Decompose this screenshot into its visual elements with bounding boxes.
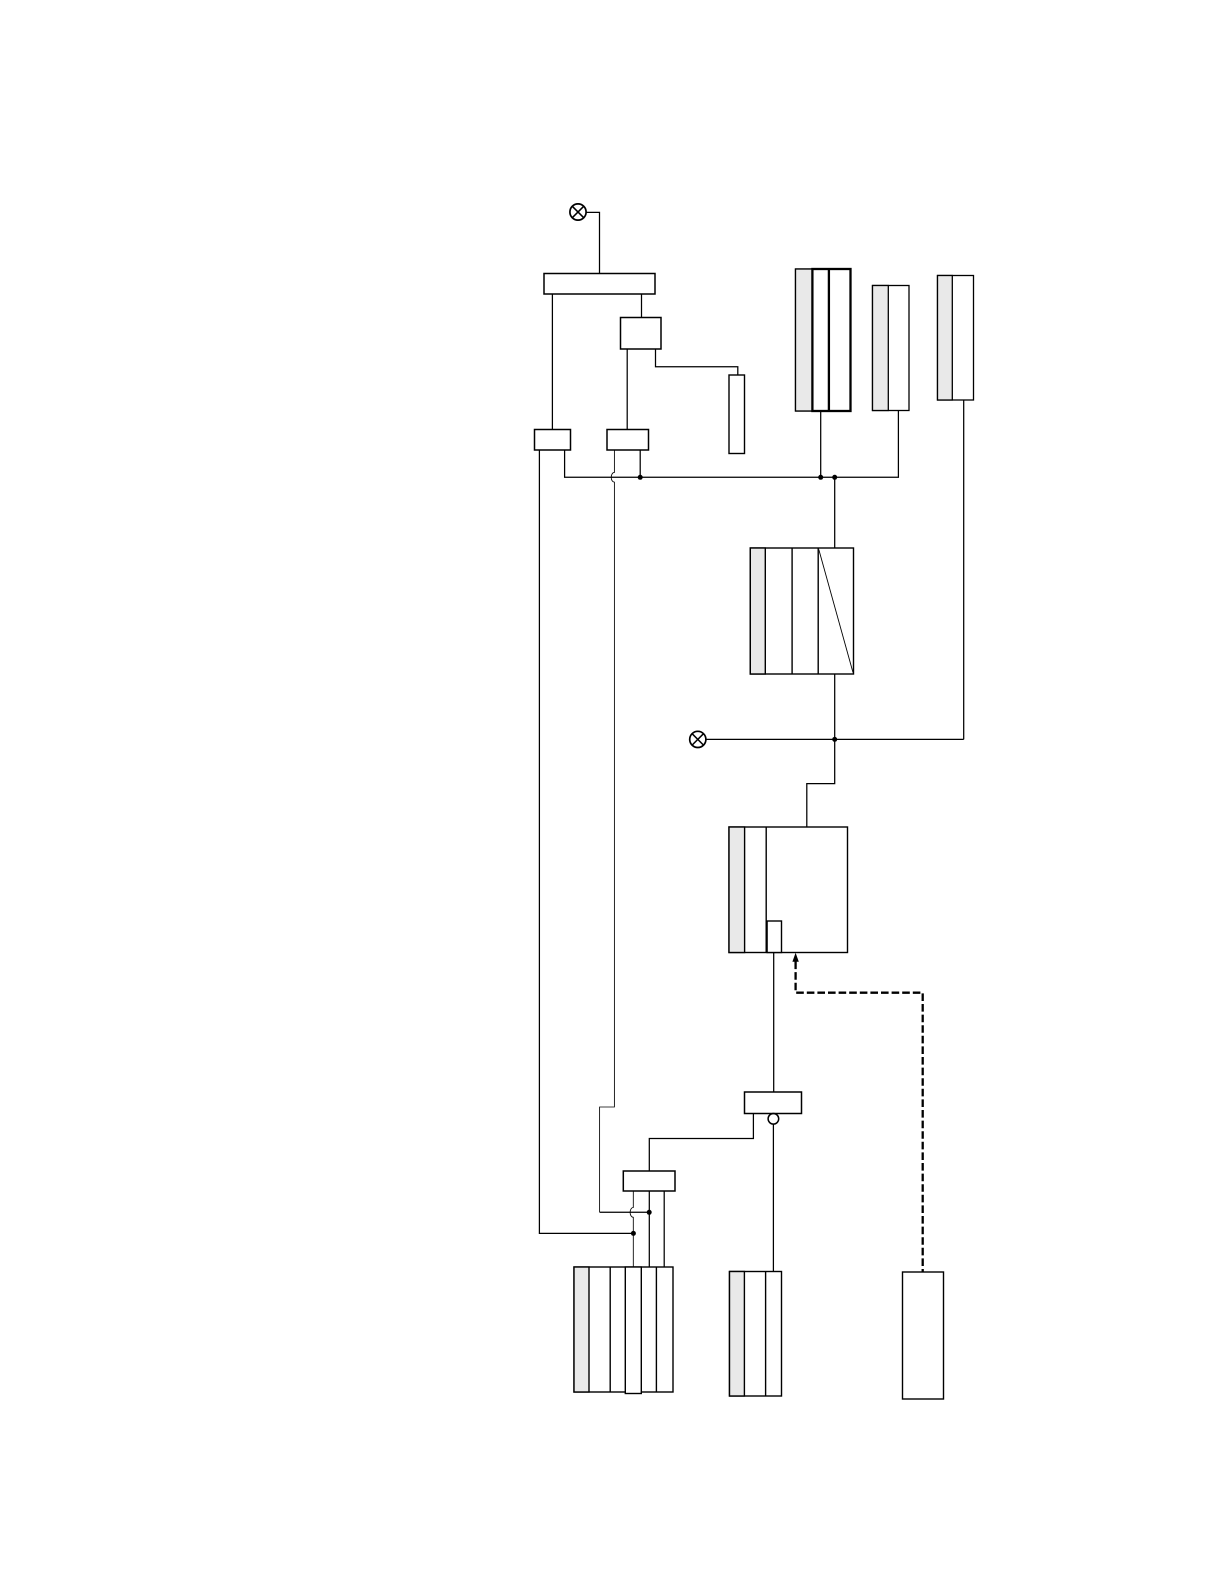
- switch S1 (box with diagonal): [750, 548, 853, 674]
- terminal circle under X5: [768, 1114, 779, 1125]
- connector X3: [535, 430, 571, 451]
- arrowhead: [792, 953, 798, 962]
- connector X6: [623, 1171, 675, 1191]
- wire node to control unit E top: [807, 739, 835, 827]
- wire X5 circle to block F2: [772, 1124, 774, 1271]
- junction on lamp row: [832, 737, 837, 742]
- connector X5: [745, 1092, 802, 1114]
- junction on bus at strip A: [818, 475, 823, 480]
- terminal strip B: [873, 286, 910, 411]
- wire X5 to connector X6: [649, 1114, 753, 1172]
- junction on bus at X4 right leg: [638, 475, 643, 480]
- control unit E: [729, 827, 848, 953]
- wire E to connector X5: [773, 953, 775, 1093]
- wire T1 to relay K2: [641, 294, 643, 318]
- lamp L2: [690, 731, 706, 747]
- connector T1: [544, 274, 655, 295]
- wire strip C down to lamp row: [963, 400, 965, 739]
- lamp L1: [570, 204, 586, 220]
- junction on bus at S1 feed: [832, 475, 837, 480]
- wire K2 to connector X4: [626, 349, 628, 430]
- wire X4 left leg lower horizontal to junction: [600, 1211, 650, 1213]
- block F1: [574, 1267, 673, 1394]
- wire S1 to lamp row node: [834, 674, 836, 739]
- wire X6 pin2 to block F1: [648, 1191, 650, 1267]
- wire lamp row: [706, 738, 964, 740]
- junction lower wire y1233: [631, 1231, 636, 1236]
- terminal strip C: [938, 276, 974, 401]
- dashed control line with arrow: [796, 962, 923, 1272]
- wire bus to switch S1: [834, 477, 836, 548]
- wire T1 to connector X3: [551, 294, 553, 430]
- junction lower wire y1212: [647, 1210, 652, 1215]
- terminal strip A: [796, 269, 851, 411]
- wire K2 to resistor R1: [656, 349, 738, 375]
- wire X3 left leg down to node row: [539, 450, 633, 1233]
- wire strip A to bus: [820, 411, 822, 477]
- block F3: [903, 1272, 944, 1399]
- wire X6 pin1 to block F1 (with hop): [630, 1191, 633, 1267]
- wire X3 right leg to bus: [565, 411, 899, 478]
- block F2: [730, 1272, 782, 1397]
- relay K2: [621, 318, 662, 350]
- connector X4: [607, 430, 649, 451]
- wire X6 pin3 to block F1: [663, 1191, 665, 1267]
- wire lamp L1 to connector T1: [586, 212, 599, 273]
- wire X4 left leg with hop over bus: [600, 450, 615, 1212]
- wire X4 right leg to bus: [639, 450, 641, 477]
- resistor R1: [729, 375, 745, 454]
